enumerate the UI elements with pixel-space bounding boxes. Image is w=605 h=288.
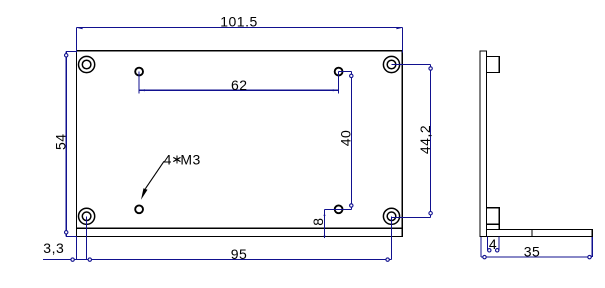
svg-text:3,3: 3,3 xyxy=(43,240,64,256)
M3 hole top-left xyxy=(135,68,143,76)
svg-text:35: 35 xyxy=(524,244,541,260)
M3 hole bottom-right xyxy=(335,205,343,213)
M3 hole bottom-left xyxy=(135,205,143,213)
svg-text:62: 62 xyxy=(231,77,248,93)
svg-text:44,2: 44,2 xyxy=(417,125,433,154)
dimension 8 xyxy=(325,209,339,238)
dimension 40 xyxy=(339,72,353,210)
dimension 35 (side view) xyxy=(481,237,592,259)
dimension 4 (side view) xyxy=(488,236,499,252)
corner hole top-left xyxy=(79,56,95,72)
M3 hole top-right xyxy=(335,68,343,76)
corner hole bottom-left xyxy=(79,208,95,224)
dimension 3.3 and 95 (bottom) xyxy=(43,216,391,261)
side view base flange xyxy=(487,230,593,237)
dimension 54 xyxy=(65,52,78,237)
corner hole bottom-right xyxy=(383,208,399,224)
dimension 62 xyxy=(139,72,339,94)
main plate outline (front view) xyxy=(76,51,402,237)
side view flange divider xyxy=(531,230,533,237)
dimension 44.2 xyxy=(392,65,433,218)
corner hole top-right xyxy=(383,56,399,72)
svg-text:8: 8 xyxy=(310,217,326,225)
side view standoff foot xyxy=(487,224,500,229)
svg-text:M3: M3 xyxy=(180,151,200,167)
svg-text:4: 4 xyxy=(489,236,497,252)
label 4*M3 xyxy=(164,151,201,167)
side view top standoff xyxy=(487,57,500,73)
svg-text:101.5: 101.5 xyxy=(220,14,258,30)
side view bottom standoff xyxy=(487,208,500,225)
svg-text:4: 4 xyxy=(164,151,172,167)
side view wall xyxy=(480,51,487,237)
svg-text:40: 40 xyxy=(338,130,354,147)
asterisk star of 4*M3 xyxy=(173,155,180,163)
svg-text:54: 54 xyxy=(53,133,69,150)
dimension 101.5 xyxy=(77,27,403,52)
leader arrowhead of 4*M3 xyxy=(141,188,148,200)
svg-text:95: 95 xyxy=(231,246,248,262)
leader line of 4*M3 xyxy=(145,161,164,189)
